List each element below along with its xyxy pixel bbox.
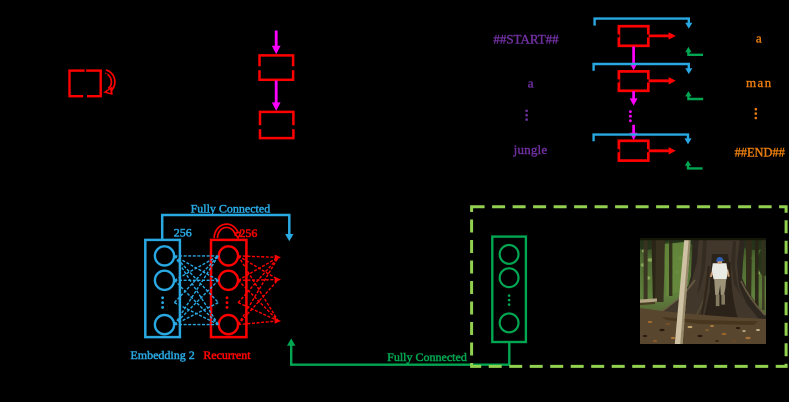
orange vdots — [755, 108, 758, 119]
tree streaks — [697, 240, 707, 296]
embedding column (blue) — [145, 240, 180, 337]
red neuron 2 — [219, 271, 238, 290]
tree edge shading — [652, 238, 699, 317]
front root vine right of man — [729, 262, 740, 330]
light foliage speckles — [641, 249, 760, 293]
RNN box row3 — [619, 141, 648, 161]
PART 5: green dashed box + photo — [472, 207, 786, 367]
blue vdots — [161, 296, 164, 308]
fallen log left — [640, 298, 657, 302]
image feature column (green) — [492, 237, 526, 342]
svg-text:jungle: jungle — [513, 142, 548, 157]
bracket row2 — [594, 64, 689, 71]
magenta arrow row1-row2 — [632, 47, 635, 64]
svg-text:Recurrent: Recurrent — [203, 348, 251, 362]
red neuron 1 — [219, 246, 238, 265]
bracket row1 — [595, 19, 689, 26]
svg-text:Fully Connected: Fully Connected — [387, 350, 467, 364]
PART 3: unrolled RNN right — [493, 19, 785, 169]
bracket row3 — [594, 135, 688, 142]
gap on loop arc — [105, 74, 107, 77]
man: shirt — [712, 263, 728, 279]
photo top dark strip — [640, 238, 766, 240]
blue neuron 1 — [155, 246, 174, 265]
box B side gaps (hidden text) — [257, 125, 297, 129]
blue neuron 3 — [155, 315, 174, 334]
photo of man in jungle — [636, 237, 770, 345]
svg-text:##END##: ##END## — [735, 146, 785, 160]
svg-text:##START##: ##START## — [493, 32, 559, 47]
background trunks right — [746, 238, 752, 310]
big buttress tree — [652, 238, 766, 322]
magenta arrow below row2 — [632, 91, 635, 99]
box A side gaps (hidden text) — [257, 66, 297, 70]
purple vdots — [525, 110, 528, 121]
red neuron 3 — [219, 315, 238, 334]
svg-text:man: man — [746, 75, 773, 90]
canopy dark blobs — [636, 237, 770, 277]
bright foliage patch — [664, 242, 686, 296]
CNN dashed container — [472, 207, 786, 367]
man: head — [717, 259, 722, 264]
svg-text:a: a — [756, 30, 762, 45]
blue neuron 2 — [155, 271, 174, 290]
man: lower legs — [716, 295, 720, 307]
ground shade under tree — [662, 317, 758, 325]
green feedback arrow row2 — [688, 95, 703, 99]
green feedback arrow row1 — [688, 51, 703, 55]
blue mesh wires — [174, 256, 218, 325]
man: left forearm — [710, 269, 714, 278]
RNN box row2 — [619, 71, 648, 90]
photo background forest — [640, 238, 766, 344]
man crevice dark — [709, 254, 732, 300]
green feedback arrow row3 — [688, 164, 703, 168]
ground speckles — [643, 321, 760, 342]
background trunk left wide — [652, 238, 666, 302]
output arrow row2 — [649, 79, 670, 82]
green neuron 1 — [500, 245, 519, 264]
svg-text:256: 256 — [174, 226, 192, 240]
magenta vdots — [629, 110, 632, 122]
man: cap — [716, 257, 724, 262]
green neuron 2 — [500, 268, 519, 287]
background trunk far left — [644, 238, 648, 302]
output arrow row1 — [649, 35, 670, 38]
gap on box bottom edge (hidden text overlap) — [83, 94, 87, 98]
magenta arrow into row3 — [632, 125, 635, 134]
gap on box top edge — [85, 69, 87, 72]
front root vine left of man — [700, 266, 709, 322]
recurrent column (red) — [211, 240, 246, 337]
output arrow row3 — [649, 149, 670, 152]
self-loop arc — [106, 72, 114, 90]
magenta arrow into box A — [275, 31, 278, 47]
ground leaf litter — [640, 308, 766, 344]
buttress ridge highlights — [654, 280, 695, 316]
blue fully-connected path — [162, 215, 289, 239]
red mesh arrowheads — [275, 255, 281, 324]
RNN box row1 — [619, 26, 648, 46]
green fully-connected wire from image features — [291, 343, 509, 365]
self-loop arrowhead — [103, 87, 112, 95]
man: pants — [714, 279, 726, 295]
svg-text:Embedding 2: Embedding 2 — [130, 348, 194, 362]
svg-text:Fully Connected: Fully Connected — [191, 201, 271, 215]
PART 2: middle stacked boxes — [257, 31, 297, 139]
box A — [260, 55, 294, 79]
svg-text:a: a — [528, 76, 534, 91]
RNN box — [70, 71, 101, 97]
PART 1: top-left RNN box with self loop — [70, 69, 114, 98]
svg-text:256: 256 — [239, 226, 257, 240]
shadow under man — [704, 294, 736, 318]
magenta arrow A to B — [275, 81, 278, 103]
red vdots — [226, 296, 229, 308]
box B — [260, 112, 293, 138]
red mesh wires — [238, 256, 278, 325]
green vdots — [508, 294, 511, 306]
background trunk thin left — [669, 238, 672, 296]
light sapling — [675, 238, 691, 344]
PART 4: bottom-left network — [130, 201, 509, 364]
green neuron 3 — [500, 314, 519, 333]
red recurrent self-loop — [216, 226, 237, 238]
man: right forearm — [726, 270, 730, 278]
